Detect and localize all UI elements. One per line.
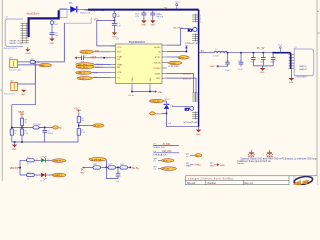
svg-text:1k: 1k <box>27 178 29 180</box>
svg-text:4.7k: 4.7k <box>81 132 85 134</box>
ground chain B <box>112 32 117 38</box>
junction rail c3 <box>272 52 274 54</box>
test point 5V rail <box>278 45 283 53</box>
svg-text:Rev 1.0: Rev 1.0 <box>245 182 254 185</box>
capacitor bus C2 <box>150 13 155 15</box>
junction filter out <box>130 167 132 169</box>
IC U1 right pin names <box>153 47 161 80</box>
left border zone tick <box>0 89 2 91</box>
svg-text:charger_lithium_4cell.SchDoc: charger_lithium_4cell.SchDoc <box>188 177 234 180</box>
wire led2 to label <box>46 174 52 176</box>
net label oval charge led <box>52 159 66 163</box>
svg-text:TP_N: TP_N <box>163 160 168 162</box>
wire P1 top pin <box>18 61 31 63</box>
ground bus cap2 <box>150 20 155 26</box>
ground bus cap1 <box>141 20 146 26</box>
wire filter cap loop <box>106 167 118 178</box>
ferrite bead F3 <box>120 166 128 169</box>
LED D green <box>41 156 47 162</box>
IC U1 left pin names <box>117 47 123 80</box>
resistor R 10k <box>77 116 80 122</box>
pin group D <box>192 111 198 119</box>
wire bead3 out <box>128 166 132 168</box>
test point TP bus <box>175 2 180 11</box>
svg-text:CHARGE_L: CHARGE_L <box>53 160 63 163</box>
junction filter 1 <box>106 167 108 169</box>
title block background <box>186 176 318 185</box>
svg-text:2k: 2k <box>25 122 27 124</box>
wire bus to inductor <box>199 52 214 54</box>
svg-text:LODRV: LODRV <box>153 68 161 70</box>
junction snub cap1 <box>227 52 229 54</box>
junction snub cap2 <box>240 52 242 54</box>
svg-text:VBAT(): VBAT() <box>10 167 18 170</box>
net label oval RXD <box>76 65 95 68</box>
junction P2 net <box>35 61 36 62</box>
pin group A numbers <box>200 15 201 23</box>
pin group B <box>192 33 198 41</box>
wire SDIO_S row <box>167 78 196 93</box>
svg-text:BQ24600RVA: BQ24600RVA <box>129 40 145 44</box>
resistor R 1k lower left <box>10 129 13 135</box>
svg-text:10nF: 10nF <box>238 69 243 71</box>
wire divider node <box>12 126 45 128</box>
svg-text:GND: GND <box>220 165 225 167</box>
capacitor snub C2 <box>239 62 244 64</box>
wire REGN row <box>167 62 168 64</box>
wire P1 bottom pin <box>18 64 39 66</box>
junction CE row <box>103 57 105 59</box>
POWER <box>167 29 314 94</box>
wire R to led2 <box>34 174 41 176</box>
svg-text:10R: 10R <box>54 24 58 26</box>
test point G gnd arrow <box>214 163 225 166</box>
TITLEBLOCK <box>186 175 318 186</box>
junction pin2 <box>186 51 188 53</box>
svg-text:GND: GND <box>210 166 215 168</box>
power port 5V arrow <box>185 46 188 49</box>
port row B line <box>153 152 179 154</box>
ferrite bead F1 <box>93 166 101 169</box>
ground below connector <box>25 47 30 52</box>
HEADER <box>172 10 201 136</box>
svg-text:Size A4: Size A4 <box>187 182 196 185</box>
junction gnd rail 1 <box>14 141 16 143</box>
svg-text:BTST: BTST <box>155 57 161 59</box>
svg-text:VBAT_S: VBAT_S <box>78 72 86 75</box>
svg-text:GND: GND <box>260 72 265 74</box>
wire TXD row <box>94 64 110 66</box>
IC <box>111 38 167 97</box>
wire RST row <box>94 51 111 53</box>
wire cap tap 2 <box>240 53 242 63</box>
BUS <box>49 2 179 46</box>
svg-text:4: 4 <box>200 21 201 23</box>
svg-text:GND: GND <box>132 77 134 82</box>
svg-text:GND: GND <box>12 149 17 151</box>
junction divider left <box>11 127 13 129</box>
resistor R 4.7k <box>77 128 80 135</box>
wire bead P1 output <box>35 23 64 62</box>
wire divider gnd rail <box>12 135 78 142</box>
ground rail caps <box>260 66 265 74</box>
IC U1 left pin stubs <box>111 46 116 78</box>
svg-text:N-SCL_DIO: N-SCL_DIO <box>153 147 165 149</box>
TOPLEFT <box>3 1 198 62</box>
svg-text:Passive(Y): Passive(Y) <box>4 93 15 95</box>
junction filter 2 <box>117 167 119 169</box>
ground header bottom <box>196 127 201 136</box>
capacitor 100nF adc <box>42 130 47 132</box>
wire R10k to node <box>78 123 80 129</box>
junction gnd rail 2 <box>21 141 23 143</box>
svg-text:Passive (x0): Passive (x0) <box>9 69 21 71</box>
svg-text:RE: RE <box>117 67 121 69</box>
capacitor bus C1 <box>141 13 146 15</box>
CRYSTALS <box>4 23 64 96</box>
ground P2 <box>21 90 26 96</box>
ground port left arrow <box>210 65 219 68</box>
svg-text:SM04B-SRSS: SM04B-SRSS <box>3 48 17 50</box>
connector J1 body <box>5 19 23 47</box>
net label oval power led <box>52 173 66 177</box>
wire oval to diode node <box>164 100 167 102</box>
wire R to led1 <box>34 159 41 161</box>
resistor R 2.2k lower mid <box>20 129 23 135</box>
title block frame <box>186 176 318 185</box>
wire cap1 to gnd <box>143 15 145 21</box>
svg-text:GND: GND <box>26 53 31 55</box>
right sheet border <box>316 0 318 185</box>
svg-text:LOW_DRV: LOW_DRV <box>168 66 179 68</box>
capacitor rail C3 <box>270 53 276 66</box>
IC U1 bottom pin names GND <box>132 77 152 82</box>
wire cap2 to gnd <box>152 15 154 21</box>
svg-text:K?: K? <box>185 108 190 112</box>
wire 5V rail thick <box>273 52 290 54</box>
VCC power port column 2 <box>74 107 81 113</box>
wire SDIO_B row <box>167 74 194 94</box>
wire gnd to cap CE <box>77 57 82 59</box>
ground divider <box>12 142 17 151</box>
svg-text:/INT: /INT <box>95 50 100 52</box>
svg-text:GND: GND <box>157 92 162 94</box>
svg-text:R? 100R: R? 100R <box>33 124 41 126</box>
capacitor CE row <box>82 56 84 60</box>
junction rail c1 <box>253 52 255 54</box>
svg-text:ZX62DM3U: ZX62DM3U <box>295 76 307 78</box>
wire VCC to R 10k <box>78 113 80 116</box>
svg-text:GND: GND <box>50 43 55 45</box>
net tie symbol 2 <box>266 150 273 158</box>
wire led1 to label <box>46 159 52 161</box>
svg-text:4G_VBUS(B): 4G_VBUS(B) <box>91 159 103 161</box>
LED D red <box>41 173 47 183</box>
svg-text:RXD_MCU: RXD_MCU <box>78 67 88 69</box>
ground usb <box>289 70 294 85</box>
svg-text:100nF: 100nF <box>270 61 276 63</box>
net label oval TS row <box>77 77 93 80</box>
buzzer P2 body <box>11 82 18 90</box>
pin group C <box>192 92 198 102</box>
svg-text:GND: GND <box>150 25 155 27</box>
wire thin diode cathode <box>77 9 88 11</box>
svg-text:1: 1 <box>48 159 49 161</box>
junction bus cap2 <box>152 9 154 11</box>
ground port CE row <box>75 56 77 59</box>
svg-text:GND: GND <box>141 25 146 27</box>
wire vbus row <box>162 112 167 114</box>
ground port right of bottom wire <box>155 90 163 94</box>
svg-text:Number: Number <box>208 182 217 185</box>
svg-text:GND: GND <box>80 172 85 174</box>
switch K2 <box>185 106 194 111</box>
ferrite bead FB P1 <box>30 60 35 63</box>
net label oval P1 <box>39 63 52 66</box>
svg-text:10k: 10k <box>81 120 84 122</box>
svg-text:D?: D? <box>69 1 73 5</box>
resistor R 2k <box>20 118 23 125</box>
net label oval REGN <box>168 61 182 64</box>
wire bottom gnd pins <box>132 88 155 92</box>
svg-text:BOM?: BOM? <box>154 47 161 49</box>
ferrite bead FB2 <box>51 21 54 25</box>
svg-text:4 x xx: 4 x xx <box>128 95 135 97</box>
junction bottom right <box>149 91 151 93</box>
wire inductor to rail <box>227 52 253 54</box>
wire P2 to junction <box>18 62 36 84</box>
wire diode down <box>166 109 168 127</box>
usb connector J2 body <box>294 49 314 76</box>
svg-text:VCC: VCC <box>117 47 122 49</box>
svg-text:PU_5V: PU_5V <box>257 47 265 50</box>
net label oval vbus filter <box>89 158 106 162</box>
wire thin diode anode <box>59 9 71 11</box>
svg-text:WKUP_OUT: WKUP_OUT <box>10 43 23 45</box>
svg-text:VOUT_4G: VOUT_4G <box>151 101 160 103</box>
wire BTST row <box>167 56 171 58</box>
wire after series R <box>39 126 52 128</box>
junction column 2 <box>78 125 80 127</box>
svg-text:REGN: REGN <box>154 62 161 64</box>
inductor L 2.2uH <box>213 49 228 58</box>
svg-text:CE: CE <box>117 59 121 61</box>
svg-text:VBU: VBU <box>94 72 99 74</box>
svg-text:(9v-5)+: (9v-5)+ <box>132 167 140 170</box>
junction vbus <box>166 113 168 115</box>
port row A line <box>153 145 179 147</box>
SHEET <box>0 0 320 185</box>
svg-text:2.2uH: 2.2uH <box>213 55 219 57</box>
svg-text:GND: GND <box>210 66 215 68</box>
net label oval BTST <box>178 56 189 59</box>
svg-text:PG_4G: PG_4G <box>81 52 88 54</box>
net label oval TXD <box>76 63 95 66</box>
usb J2 pins <box>289 54 295 70</box>
net label oval RST <box>80 50 94 53</box>
wire cap tap 1 <box>227 53 229 63</box>
net label oval adc <box>52 126 58 129</box>
wire sense drop <box>12 64 36 129</box>
wire filter main <box>85 166 94 168</box>
LEFTIC <box>75 50 111 80</box>
wire cap B to gnd <box>113 25 115 32</box>
svg-text:SDIO_B: SDIO_B <box>183 73 192 75</box>
ferrite bead chain A stub <box>51 18 53 21</box>
wire bead A to cap <box>51 25 53 33</box>
PORTS <box>153 143 245 171</box>
net label oval VBUS <box>149 112 155 115</box>
wire bead1 to bead2 <box>101 166 109 168</box>
wire 5V to usb pin rail <box>290 53 292 69</box>
DIVIDER <box>10 64 104 151</box>
ground port filter left <box>80 167 85 175</box>
wire IC pin2 to 5V arrow <box>167 48 187 51</box>
svg-text:TS_4G: TS_4G <box>79 78 86 80</box>
wire thick battery input <box>29 10 59 37</box>
wire bus to cap2 <box>152 10 154 14</box>
svg-text:xTPAD: xTPAD <box>194 163 201 166</box>
resistor R 100R series <box>33 126 39 129</box>
junction VCC tap <box>114 20 116 22</box>
svg-text:TP_LIM: TP_LIM <box>162 169 169 171</box>
wire bead B down <box>113 18 115 24</box>
wire led split <box>20 160 27 175</box>
svg-text:C? 1uF: C? 1uF <box>165 123 172 125</box>
wire light blue bypass <box>64 18 91 62</box>
svg-text:10nF: 10nF <box>225 70 230 72</box>
svg-text:10R: 10R <box>116 16 120 18</box>
capacitor rail C1 <box>250 53 255 66</box>
junction bottom left <box>131 91 133 93</box>
wire to switch K2 <box>172 106 190 108</box>
junction bus cap1 <box>143 9 145 11</box>
wire RXD row <box>94 66 110 68</box>
svg-text:REGN: REGN <box>170 63 176 65</box>
svg-text:BTST: BTST <box>179 57 185 59</box>
svg-text:SRP: SRP <box>156 78 161 80</box>
sim holder vertical rail thick <box>198 10 200 43</box>
svg-text:2.4uH: 2.4uH <box>158 16 164 18</box>
switch K1 <box>188 27 197 32</box>
wire oval stem <box>105 160 107 168</box>
title block dotted divider <box>294 176 296 185</box>
svg-text:2: 2 <box>37 159 38 161</box>
net label oval ts mcu <box>93 124 104 127</box>
svg-text:1k: 1k <box>27 163 29 165</box>
capacitor snub C1 <box>225 62 230 64</box>
diode D2 vertical <box>163 104 173 109</box>
svg-text:USB(L2): USB(L2) <box>299 69 307 71</box>
capacitor rail C2 <box>260 53 265 66</box>
wire IC pin1 right up <box>167 29 190 46</box>
diode D1 <box>69 1 91 14</box>
resistor R led2 <box>27 173 35 176</box>
left sheet border <box>1 0 3 181</box>
svg-text:4Lix(18)V+: 4Lix(18)V+ <box>27 12 40 16</box>
wire TS row <box>93 77 111 79</box>
wire bus to cap1 <box>143 10 145 14</box>
wire VCC rail <box>97 21 116 46</box>
connector J1 pin rails <box>21 23 23 44</box>
company logo swoosh <box>294 175 314 186</box>
junction rail c2 <box>263 52 265 54</box>
FILTER <box>80 158 140 184</box>
svg-text:VREF: VREF <box>155 73 161 75</box>
resistor R led1 <box>27 159 35 162</box>
VOUT <box>149 99 198 127</box>
svg-text:connect these ground with via: connect these ground with via <box>240 160 271 163</box>
svg-text:TS_4G: TS_4G <box>94 126 101 128</box>
IC U1 right pin stubs <box>162 45 167 78</box>
wire cap1 bottom <box>218 64 227 66</box>
wire thick diode to bus <box>88 9 199 11</box>
wire rail caps gnd <box>253 65 273 67</box>
net label oval VBAT row <box>76 71 92 74</box>
connector J1 pins <box>21 23 29 43</box>
wire bead2 to bead3 <box>116 166 121 168</box>
test point E oval <box>195 154 202 157</box>
svg-text:GND: GND <box>150 77 152 82</box>
LEDS <box>10 156 66 182</box>
net tie symbol 1 <box>248 150 255 158</box>
wire VBAT row <box>92 71 111 73</box>
capacitor C4 <box>50 33 55 35</box>
wire CE row to IC <box>83 57 110 59</box>
VBAT power port <box>18 111 25 118</box>
svg-text:TPAD: TPAD <box>186 165 192 168</box>
junction led split <box>19 167 21 169</box>
svg-text:2.2k: 2.2k <box>24 133 28 135</box>
svg-text:GND: GND <box>289 82 294 84</box>
svg-text:ST54xx(T)-4R): ST54xx(T)-4R) <box>185 43 200 45</box>
svg-text:LIM-SDA_DIO: LIM-SDA_DIO <box>153 154 167 157</box>
junction cap adc <box>44 127 46 129</box>
test point C oval <box>161 159 174 162</box>
wire bus to bead B <box>113 10 115 14</box>
junction chain B <box>114 9 116 11</box>
IC U1 bottom pin stubs <box>132 84 150 88</box>
junction divider mid <box>21 127 23 129</box>
bypass outline around diode <box>60 9 67 18</box>
svg-text:VBAT: VBAT <box>117 63 123 66</box>
ferrite bead F2 <box>108 166 116 169</box>
buzzer P1 body <box>10 60 18 68</box>
svg-text:VBAT+: VBAT+ <box>40 64 47 67</box>
svg-text:PWR(5.0)4G-9VBA: PWR(5.0)4G-9VBA <box>85 9 106 12</box>
ferrite bead L1 <box>113 13 116 17</box>
svg-text:5V: 5V <box>164 7 167 10</box>
ground chain A <box>49 39 54 45</box>
wire node to label <box>79 125 93 127</box>
svg-text:VPB: VPB <box>117 72 122 74</box>
svg-text:100nF: 100nF <box>48 133 54 135</box>
wire 5V rail <box>253 52 273 54</box>
svg-text:1k: 1k <box>14 133 16 135</box>
svg-text:POWER_L: POWER_L <box>53 175 62 177</box>
svg-text:GND: GND <box>196 134 201 136</box>
op-amp charger IC U1 body <box>116 44 163 84</box>
usb J2 pin names <box>299 66 307 71</box>
capacitor filter C <box>116 174 121 176</box>
net label oval PWR_OUT long <box>149 99 164 103</box>
svg-text:ST54xx(T)-4R): ST54xx(T)-4R) <box>184 122 199 124</box>
pin group A <box>192 14 198 22</box>
svg-text:SDIO_S: SDIO_S <box>183 78 192 80</box>
NOTES <box>240 150 317 163</box>
right border zone tick <box>317 32 320 34</box>
capacitor C chain B <box>112 23 117 25</box>
